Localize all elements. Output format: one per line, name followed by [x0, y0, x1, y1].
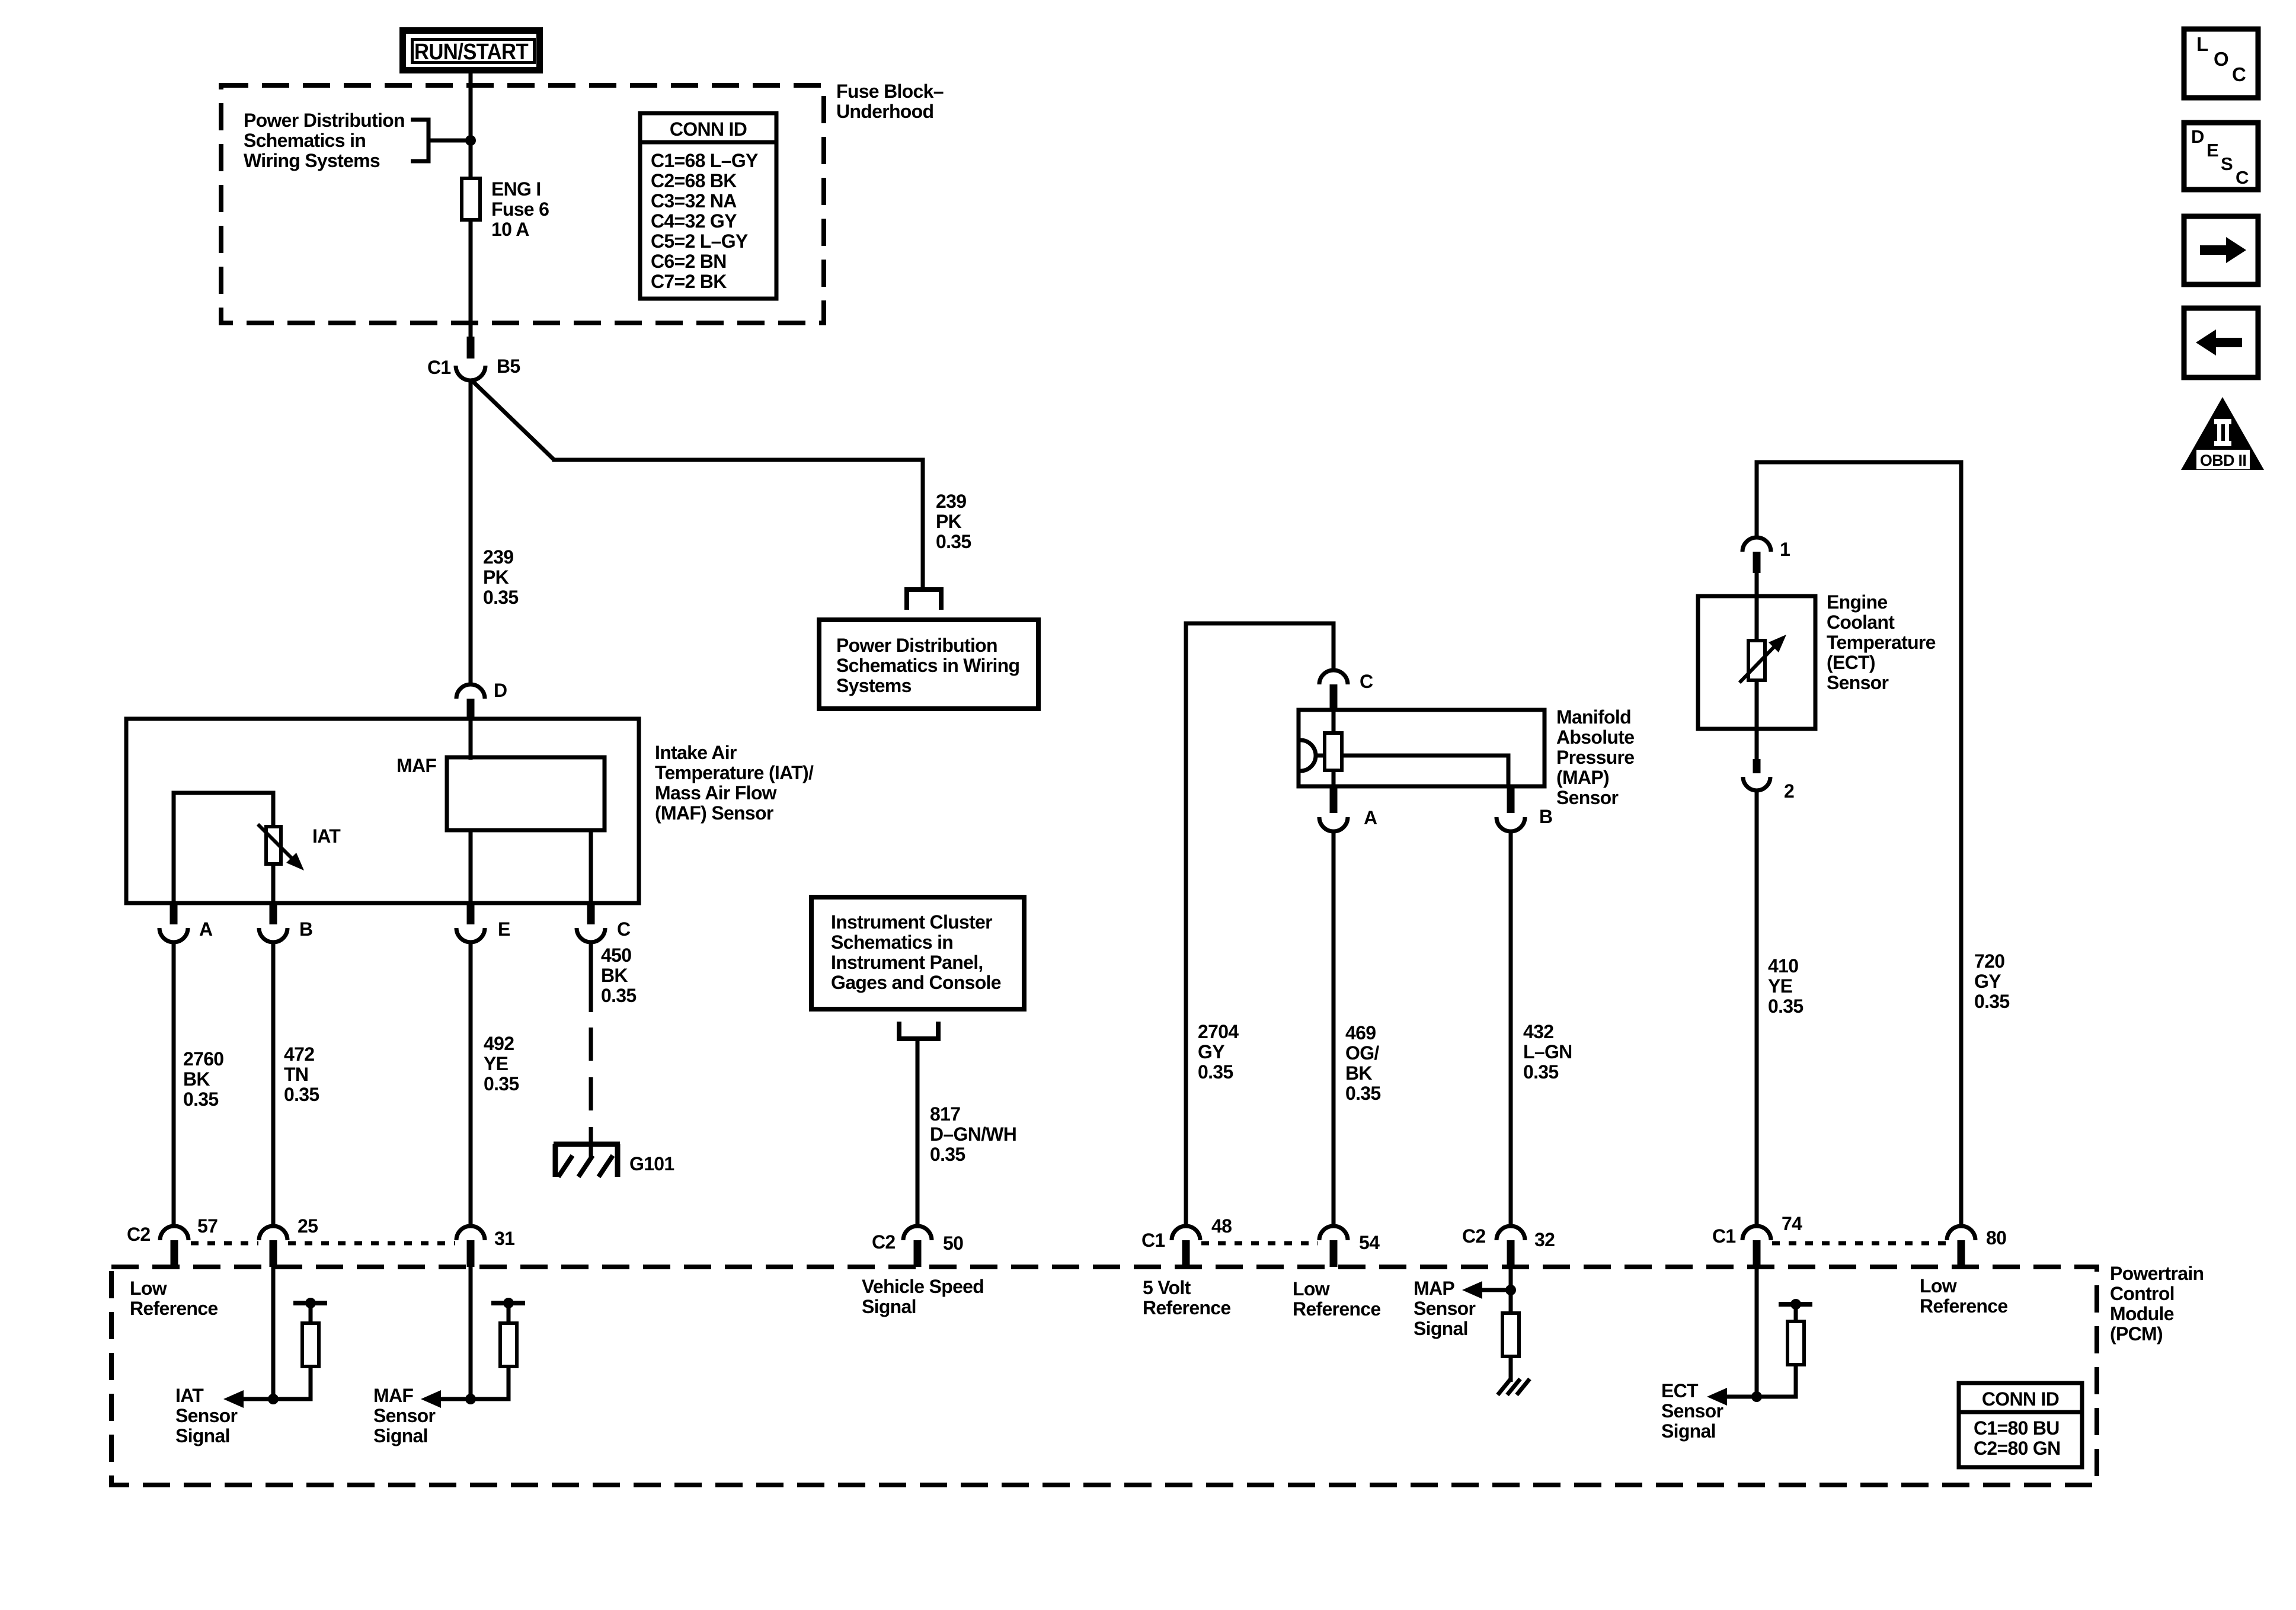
svg-text:Sensor: Sensor — [1661, 1400, 1723, 1422]
svg-text:0.35: 0.35 — [1768, 996, 1803, 1017]
connector PCM terminal 50 pin stub — [914, 1240, 922, 1267]
connector terminal A pin stub — [170, 903, 178, 924]
wire instrument cluster to PCM 50 — [916, 1039, 920, 1226]
svg-text:Sensor: Sensor — [1556, 787, 1619, 808]
svg-text:IAT: IAT — [175, 1385, 204, 1406]
ignition switch RUN/START box — [403, 31, 540, 71]
wire box top to MAF element — [469, 719, 473, 760]
svg-text:C7=2 BK: C7=2 BK — [651, 271, 727, 292]
svg-text:Pressure: Pressure — [1556, 747, 1634, 768]
wire ECT box to terminal 2 — [1755, 729, 1759, 759]
connector PCM terminal 80 pin stub — [1958, 1240, 1965, 1267]
wire MAF C internal — [589, 830, 593, 903]
svg-text:Wiring Systems: Wiring Systems — [244, 150, 380, 171]
connector PCM terminal 57 — [160, 1226, 188, 1240]
fuse ENG I Fuse 6 10A — [462, 178, 480, 220]
junction ECT pullup — [1790, 1299, 1801, 1310]
svg-text:Vehicle Speed: Vehicle Speed — [862, 1276, 984, 1297]
connector PCM terminal 80 — [1947, 1226, 1975, 1240]
svg-text:C2=68 BK: C2=68 BK — [651, 170, 737, 191]
ground PCM internal — [1498, 1379, 1511, 1395]
svg-text:0.35: 0.35 — [1345, 1083, 1380, 1104]
IAT MAF sensor box — [126, 719, 639, 903]
connector PCM terminal 54 — [1319, 1226, 1348, 1240]
svg-text:MAF: MAF — [373, 1385, 413, 1406]
svg-text:Engine: Engine — [1827, 591, 1887, 613]
wire IAT signal horizontal — [234, 1397, 311, 1401]
wire MAP internal C — [1332, 712, 1336, 733]
svg-text:(MAF) Sensor: (MAF) Sensor — [655, 802, 773, 824]
wire MAF pullup lower — [507, 1366, 511, 1401]
connector PCM terminal 57 pin stub — [171, 1240, 178, 1267]
svg-text:C2: C2 — [872, 1231, 896, 1253]
svg-text:C1=68 L–GY: C1=68 L–GY — [651, 150, 758, 171]
wire terminal A to PCM 57 — [172, 942, 176, 1226]
connector MAP terminal C pin stub — [1330, 684, 1338, 712]
connector MAP terminal A — [1319, 817, 1348, 831]
ECT sensor box — [1698, 596, 1815, 729]
svg-text:PK: PK — [936, 511, 962, 532]
svg-text:OBD II: OBD II — [2200, 452, 2246, 469]
icon OBD II triangle — [2181, 397, 2264, 470]
svg-text:0.35: 0.35 — [1523, 1061, 1558, 1083]
svg-text:50: 50 — [943, 1233, 963, 1254]
svg-text:Schematics in: Schematics in — [244, 130, 366, 151]
svg-text:C5=2 L–GY: C5=2 L–GY — [651, 231, 748, 252]
svg-text:25: 25 — [298, 1215, 318, 1237]
icon forward arrow box — [2184, 216, 2258, 284]
svg-text:BK: BK — [183, 1068, 210, 1090]
wire terminal C solid part — [589, 942, 593, 1012]
svg-text:Sensor: Sensor — [1414, 1298, 1476, 1319]
resistor MAP load — [1502, 1313, 1519, 1356]
svg-text:2760: 2760 — [183, 1048, 223, 1070]
svg-text:G101: G101 — [629, 1153, 674, 1174]
svg-text:Module: Module — [2110, 1303, 2174, 1324]
svg-text:C1: C1 — [1141, 1230, 1165, 1251]
svg-text:Gages and Console: Gages and Console — [831, 972, 1001, 993]
connector PCM terminal 31 — [456, 1226, 485, 1240]
svg-text:Power Distribution: Power Distribution — [836, 635, 997, 656]
svg-text:Temperature (IAT)/: Temperature (IAT)/ — [655, 762, 814, 783]
svg-text:S: S — [2221, 153, 2233, 174]
svg-text:L: L — [2196, 33, 2208, 55]
svg-text:0.35: 0.35 — [930, 1144, 965, 1165]
connector terminal B pin stub — [270, 903, 277, 924]
thermistor IAT element — [266, 827, 281, 864]
icon LOC box — [2184, 29, 2258, 98]
connector terminal E pin stub — [467, 903, 475, 924]
resistor IAT pullup — [302, 1323, 319, 1366]
svg-text:(PCM): (PCM) — [2110, 1323, 2163, 1345]
wire IAT pullup upper — [309, 1303, 313, 1323]
svg-text:0.35: 0.35 — [284, 1084, 319, 1105]
wire fuse to connector C1 B5 — [469, 220, 473, 339]
svg-text:Low: Low — [130, 1278, 167, 1299]
wire PCM 74 internal — [1755, 1267, 1759, 1399]
svg-text:B: B — [299, 918, 312, 940]
svg-text:239: 239 — [936, 491, 966, 512]
connector MAP terminal B pin stub — [1507, 786, 1515, 813]
svg-text:Signal: Signal — [175, 1425, 230, 1446]
svg-text:Fuse Block–: Fuse Block– — [836, 81, 944, 102]
powertrain control module dashed box — [111, 1267, 2097, 1485]
svg-text:0.35: 0.35 — [936, 531, 971, 552]
connector ECT terminal 2 pin stub — [1753, 759, 1761, 773]
dotted link 74-80 — [1772, 1241, 1946, 1246]
svg-text:74: 74 — [1782, 1213, 1802, 1234]
svg-text:B: B — [1539, 806, 1552, 827]
svg-text:D: D — [494, 680, 507, 701]
svg-text:C: C — [2232, 63, 2246, 85]
svg-text:C: C — [2236, 167, 2249, 188]
wire terminal B to PCM 25 — [271, 942, 276, 1226]
thermistor IAT arrow — [258, 824, 294, 860]
bar ECT pullup reference — [1779, 1302, 1812, 1307]
bar MAF pullup reference — [491, 1301, 525, 1305]
svg-text:D: D — [2191, 126, 2204, 147]
svg-text:0.35: 0.35 — [483, 587, 518, 608]
wire ECT to PCM 74 — [1755, 790, 1759, 1226]
wire MAP internal A — [1332, 770, 1336, 786]
connector C1 terminal B5 pin stub — [467, 337, 475, 359]
MAP sensor element semicircle — [1300, 740, 1316, 771]
svg-text:Low: Low — [1293, 1278, 1330, 1299]
dotted link 25-31 — [288, 1241, 455, 1246]
svg-text:Schematics in Wiring: Schematics in Wiring — [836, 655, 1019, 676]
resistor ECT pullup — [1787, 1321, 1804, 1365]
svg-text:C: C — [1360, 671, 1373, 692]
off-page bracket to power distribution — [907, 590, 941, 610]
wire terminal E to PCM 31 — [469, 942, 473, 1226]
connector MAP terminal C — [1319, 670, 1348, 684]
svg-text:Powertrain: Powertrain — [2110, 1263, 2204, 1284]
svg-text:C6=2 BN: C6=2 BN — [651, 251, 727, 272]
svg-text:Low: Low — [1920, 1275, 1957, 1297]
connector D terminal — [456, 684, 485, 699]
wire IAT internal left — [174, 793, 273, 903]
svg-text:CONN ID: CONN ID — [1982, 1388, 2059, 1410]
wire MAP A to PCM 54 — [1332, 831, 1336, 1226]
arrow MAF sensor signal — [421, 1390, 441, 1408]
wire ECT feed down — [1755, 460, 1759, 538]
resistor MAF pullup — [500, 1323, 517, 1366]
svg-text:Absolute: Absolute — [1556, 726, 1634, 748]
instrument cluster schematics box — [811, 897, 1024, 1009]
connector terminal E — [456, 928, 485, 942]
bar IAT pullup reference — [293, 1301, 327, 1305]
MAP sensor element resistor — [1325, 733, 1342, 770]
svg-text:C1=80 BU: C1=80 BU — [1974, 1417, 2060, 1439]
wire MAF pullup upper — [507, 1303, 511, 1323]
svg-text:E: E — [498, 918, 510, 940]
icon DESC box — [2184, 123, 2258, 190]
wire note bracket to ignition feed — [428, 139, 471, 143]
connector PCM terminal 48 — [1172, 1226, 1200, 1240]
svg-text:2: 2 — [1784, 780, 1794, 802]
svg-text:PK: PK — [483, 566, 509, 588]
connector PCM terminal 74 pin stub — [1753, 1240, 1761, 1267]
svg-text:OG/: OG/ — [1345, 1042, 1379, 1064]
off-page bracket instrument cluster — [899, 1022, 938, 1039]
connector MAP terminal B — [1496, 817, 1525, 831]
connector ECT terminal 1 — [1742, 537, 1771, 552]
svg-text:MAF: MAF — [396, 755, 436, 776]
svg-text:O: O — [2214, 48, 2228, 70]
svg-text:0.35: 0.35 — [183, 1089, 218, 1110]
svg-text:Signal: Signal — [1661, 1420, 1716, 1442]
fuse block underhood dashed box — [221, 85, 824, 323]
svg-text:450: 450 — [601, 945, 631, 966]
dotted link 48-54 — [1201, 1241, 1318, 1246]
svg-text:MAP: MAP — [1414, 1278, 1454, 1299]
wire ECT internal top — [1755, 596, 1759, 641]
ground G101 symbol — [554, 1142, 620, 1147]
svg-text:Underhood: Underhood — [836, 101, 933, 122]
connector PCM terminal 32 pin stub — [1507, 1240, 1515, 1267]
svg-text:Instrument Cluster: Instrument Cluster — [831, 911, 992, 933]
svg-text:0.35: 0.35 — [1974, 991, 2009, 1012]
svg-text:Temperature: Temperature — [1827, 632, 1936, 653]
wire branch horizontal — [552, 458, 925, 462]
wire terminal C dashed to ground — [589, 1028, 593, 1142]
svg-text:C2: C2 — [127, 1224, 151, 1245]
svg-text:ENG I: ENG I — [491, 178, 541, 200]
MAP sensor box — [1299, 710, 1544, 786]
svg-text:YE: YE — [484, 1053, 509, 1074]
svg-text:Reference: Reference — [1920, 1295, 2007, 1317]
svg-text:57: 57 — [197, 1215, 218, 1237]
svg-text:(ECT): (ECT) — [1827, 652, 1875, 673]
svg-text:ECT: ECT — [1661, 1380, 1699, 1401]
wire to MAP C — [1332, 622, 1336, 671]
svg-text:GY: GY — [1974, 971, 2001, 992]
note bracket — [411, 120, 428, 161]
thermistor ECT element — [1748, 641, 1765, 680]
svg-text:BK: BK — [601, 965, 628, 986]
arrow MAP sensor signal — [1462, 1281, 1482, 1299]
wire C1B5 down to D — [469, 379, 473, 686]
svg-text:54: 54 — [1359, 1232, 1380, 1253]
svg-text:31: 31 — [494, 1228, 514, 1249]
connector PCM terminal 25 — [259, 1226, 287, 1240]
svg-text:5 Volt: 5 Volt — [1143, 1277, 1191, 1298]
connector PCM terminal 25 pin stub — [270, 1240, 277, 1267]
svg-text:RUN/START: RUN/START — [414, 40, 528, 65]
CONN ID table PCM — [1959, 1383, 2082, 1467]
junction MAF signal — [465, 1394, 476, 1404]
svg-text:C3=32 NA: C3=32 NA — [651, 190, 737, 212]
wire PCM 31 internal — [469, 1267, 473, 1399]
icon back arrow box — [2184, 308, 2258, 377]
arrow IAT sensor signal — [223, 1390, 244, 1408]
svg-text:32: 32 — [1534, 1229, 1555, 1250]
wire 5 volt reference vertical — [1184, 623, 1188, 1226]
wire 5 volt reference horizontal — [1184, 622, 1336, 626]
connector terminal A — [159, 928, 188, 942]
svg-text:A: A — [1364, 807, 1377, 828]
svg-text:E: E — [2207, 140, 2218, 161]
svg-text:469: 469 — [1345, 1022, 1376, 1044]
svg-text:(MAP): (MAP) — [1556, 767, 1609, 788]
wire IAT to box bottom — [271, 864, 276, 903]
svg-text:432: 432 — [1523, 1021, 1553, 1042]
svg-text:YE: YE — [1768, 975, 1793, 997]
connector terminal C pin stub — [587, 903, 595, 924]
thermistor ECT arrow — [1739, 646, 1774, 683]
junction IAT pullup — [305, 1298, 316, 1308]
svg-text:Intake Air: Intake Air — [655, 742, 737, 763]
wire MAP signal horizontal — [1472, 1288, 1511, 1292]
svg-text:D–GN/WH: D–GN/WH — [930, 1124, 1016, 1145]
wire ECT pullup lower — [1794, 1365, 1798, 1399]
svg-text:Mass Air Flow: Mass Air Flow — [655, 782, 777, 804]
svg-text:Manifold: Manifold — [1556, 706, 1631, 728]
svg-text:80: 80 — [1986, 1227, 2006, 1249]
CONN ID table fuse block — [640, 113, 776, 299]
svg-text:GY: GY — [1198, 1041, 1224, 1062]
wire 720 GY to PCM 80 — [1959, 460, 1964, 1227]
svg-text:C2=80 GN: C2=80 GN — [1974, 1438, 2060, 1459]
svg-text:Reference: Reference — [130, 1298, 218, 1319]
junction ignition feed — [465, 135, 476, 146]
connector PCM terminal 50 — [903, 1226, 932, 1240]
svg-text:Fuse 6: Fuse 6 — [491, 199, 549, 220]
svg-text:Sensor: Sensor — [175, 1405, 238, 1426]
junction ECT signal — [1751, 1391, 1762, 1402]
wire IAT pullup lower — [309, 1366, 313, 1401]
svg-text:Reference: Reference — [1293, 1298, 1380, 1320]
svg-text:0.35: 0.35 — [1198, 1061, 1233, 1083]
svg-text:C1: C1 — [1712, 1225, 1736, 1247]
connector C1 terminal B5 — [456, 366, 485, 380]
svg-text:C2: C2 — [1462, 1225, 1486, 1247]
wire ECT signal horizontal — [1717, 1395, 1796, 1399]
svg-text:Signal: Signal — [373, 1425, 428, 1446]
junction MAF pullup — [503, 1298, 514, 1308]
connector PCM terminal 48 pin stub — [1182, 1240, 1190, 1267]
svg-text:Signal: Signal — [862, 1296, 916, 1317]
svg-text:239: 239 — [483, 546, 513, 568]
svg-text:Control: Control — [2110, 1283, 2175, 1304]
svg-text:B5: B5 — [497, 356, 520, 377]
wire branch vertical — [921, 458, 925, 591]
svg-text:720: 720 — [1974, 950, 2004, 972]
svg-text:BK: BK — [1345, 1062, 1372, 1084]
wire ECT pullup upper — [1794, 1304, 1798, 1321]
connector D pin stub — [467, 699, 475, 719]
wire branch diagonal — [471, 379, 554, 460]
svg-text:Power Distribution: Power Distribution — [244, 110, 405, 131]
svg-text:10 A: 10 A — [491, 219, 529, 240]
connector PCM terminal 74 — [1742, 1226, 1771, 1240]
svg-text:48: 48 — [1211, 1215, 1232, 1237]
svg-text:Reference: Reference — [1143, 1297, 1230, 1318]
MAF element box — [447, 757, 605, 830]
svg-text:492: 492 — [484, 1033, 514, 1054]
svg-text:C1: C1 — [427, 357, 451, 378]
connector MAP terminal A pin stub — [1330, 786, 1338, 813]
svg-text:TN: TN — [284, 1064, 308, 1085]
wire PCM 32 internal — [1509, 1267, 1513, 1313]
connector terminal C — [577, 928, 605, 942]
svg-text:A: A — [199, 918, 213, 940]
connector terminal B — [259, 928, 287, 942]
dotted link 57-25 — [191, 1241, 258, 1246]
svg-text:410: 410 — [1768, 955, 1798, 977]
svg-text:C4=32 GY: C4=32 GY — [651, 210, 737, 232]
svg-text:817: 817 — [930, 1103, 960, 1125]
svg-text:Sensor: Sensor — [373, 1405, 436, 1426]
wire MAP B to PCM 32 — [1509, 831, 1513, 1226]
svg-text:1: 1 — [1780, 539, 1790, 560]
wire MAF E internal — [469, 830, 473, 903]
junction IAT signal — [268, 1394, 279, 1404]
svg-text:472: 472 — [284, 1044, 314, 1065]
svg-text:0.35: 0.35 — [601, 985, 636, 1006]
junction MAP signal — [1505, 1285, 1516, 1295]
wire PCM 25 internal — [271, 1267, 276, 1399]
arrow ECT sensor signal — [1707, 1388, 1727, 1406]
wire RUN/START to fuse — [469, 73, 473, 181]
svg-text:Sensor: Sensor — [1827, 672, 1889, 693]
svg-text:Coolant: Coolant — [1827, 612, 1895, 633]
svg-text:Systems: Systems — [836, 675, 912, 696]
connector PCM terminal 32 — [1496, 1226, 1525, 1240]
svg-text:Schematics in: Schematics in — [831, 932, 953, 953]
svg-text:Instrument Panel,: Instrument Panel, — [831, 952, 983, 973]
svg-text:Signal: Signal — [1414, 1318, 1468, 1339]
connector PCM terminal 54 pin stub — [1330, 1240, 1338, 1267]
connector PCM terminal 31 pin stub — [467, 1240, 475, 1267]
wire MAF signal horizontal — [431, 1397, 509, 1401]
svg-text:L–GN: L–GN — [1523, 1041, 1572, 1062]
svg-text:0.35: 0.35 — [484, 1073, 519, 1094]
wire ECT top horizontal — [1755, 460, 1964, 465]
svg-text:CONN ID: CONN ID — [670, 119, 747, 140]
wire ECT stub to box — [1755, 573, 1759, 596]
connector ECT terminal 2 — [1743, 777, 1770, 790]
svg-text:C: C — [617, 918, 631, 940]
connector ECT terminal 1 pin stub — [1753, 552, 1761, 573]
wire ECT internal bottom — [1755, 680, 1759, 729]
power distribution schematics box — [819, 620, 1038, 709]
svg-text:IAT: IAT — [312, 825, 341, 847]
wire MAP to ground — [1509, 1356, 1513, 1382]
svg-text:2704: 2704 — [1198, 1021, 1239, 1042]
wire MAP internal signal — [1342, 756, 1508, 785]
